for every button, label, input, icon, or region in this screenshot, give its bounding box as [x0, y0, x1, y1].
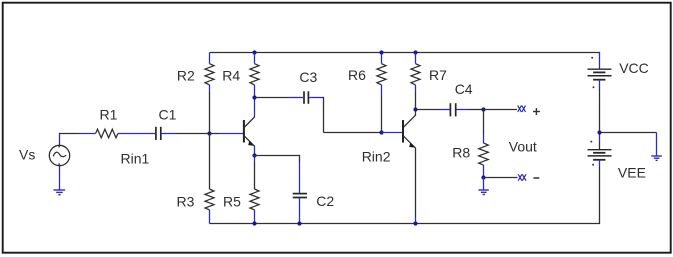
resistor R7: [411, 53, 420, 110]
node Q2 emitter at rail: [413, 221, 417, 225]
capacitor C1: [156, 127, 161, 140]
label plus sign: [533, 108, 540, 115]
capacitor C4: [450, 103, 455, 116]
terminal minus marker: [518, 174, 526, 180]
transistor Q2: [403, 110, 416, 224]
svg-text:R4: R4: [222, 67, 240, 83]
svg-text:Rin2: Rin2: [362, 149, 391, 165]
resistor R5: [250, 156, 259, 224]
svg-text:R7: R7: [429, 67, 447, 83]
svg-text:R5: R5: [223, 194, 241, 210]
label VCC: [619, 60, 649, 76]
svg-text:Vout: Vout: [509, 139, 537, 155]
label R7: [429, 67, 447, 83]
svg-text:Vs: Vs: [19, 146, 35, 162]
wire C3 to Q2 base node: [309, 97, 381, 133]
svg-text:VEE: VEE: [618, 165, 646, 181]
wire Q2 collector to C4: [416, 109, 450, 111]
svg-text:R3: R3: [177, 194, 195, 210]
wire VEE to bottom rail: [599, 160, 601, 224]
label R1: [100, 107, 118, 123]
node output plus: [481, 107, 485, 111]
node Q2 collector: [413, 107, 417, 111]
resistor R1: [96, 129, 118, 138]
wire C4 to output node: [456, 109, 483, 111]
label Rin1: [121, 151, 150, 167]
wire VCC to VEE: [599, 80, 601, 150]
label C3: [299, 69, 317, 85]
wire node to minus terminal: [484, 177, 518, 179]
svg-text:C4: C4: [455, 81, 473, 97]
node base of Q1: [207, 131, 211, 135]
wire C2 to bottom rail: [299, 198, 301, 223]
transistor Q1: [244, 98, 255, 156]
node R7 top: [413, 50, 417, 54]
ground (under Vs): [54, 190, 66, 195]
wire base node to Q2: [382, 132, 403, 134]
ground (supply midpoint): [651, 156, 662, 160]
wire bottom rail: [210, 223, 600, 225]
node R6 top: [379, 50, 383, 54]
battery VCC: [588, 52, 612, 88]
wire C1 to base node: [162, 133, 210, 135]
wire base node to Q1: [210, 133, 244, 135]
wire node to plus terminal: [484, 109, 518, 111]
label R3: [177, 194, 195, 210]
ground (under R8): [478, 178, 488, 195]
node Q1 emitter: [252, 153, 256, 157]
node Q1 collector: [252, 95, 256, 99]
svg-text:R8: R8: [452, 145, 470, 161]
label C1: [159, 107, 177, 123]
svg-text:C2: C2: [316, 193, 334, 209]
resistor R2: [205, 53, 214, 134]
source Vs: [49, 134, 95, 190]
wire top rail: [210, 52, 600, 54]
capacitor C2: [293, 194, 307, 198]
node Q2 base: [379, 130, 383, 134]
label R8: [452, 145, 470, 161]
svg-text:C3: C3: [299, 69, 317, 85]
node C2 bottom: [297, 221, 301, 225]
label Rin2: [362, 149, 391, 165]
label Vs: [19, 146, 35, 162]
terminal plus marker: [518, 106, 526, 112]
resistor R6: [377, 53, 386, 133]
node R8 bottom: [481, 175, 485, 179]
wire emitter node to C2: [255, 155, 300, 193]
label R2: [177, 67, 195, 83]
label R6: [348, 67, 366, 83]
label R5: [223, 194, 241, 210]
node R4 top: [252, 50, 256, 54]
svg-text:R6: R6: [348, 67, 366, 83]
svg-text:VCC: VCC: [619, 60, 649, 76]
node supply midpoint: [597, 130, 601, 134]
wire midpoint to ground: [600, 133, 657, 156]
label R4: [222, 67, 240, 83]
wire collector node to C3: [255, 97, 304, 99]
svg-text:C1: C1: [159, 107, 177, 123]
resistor R3: [205, 134, 214, 224]
label C2: [316, 193, 334, 209]
svg-text:R2: R2: [177, 67, 195, 83]
capacitor C3: [304, 91, 308, 104]
resistor R8: [479, 110, 489, 178]
label VEE: [618, 165, 646, 181]
wire R1 to C1: [118, 133, 155, 135]
node R5 bottom: [252, 221, 256, 225]
battery VEE: [588, 141, 612, 166]
label minus sign: [534, 177, 540, 179]
label C4: [455, 81, 473, 97]
label Vout: [509, 139, 537, 155]
svg-text:Rin1: Rin1: [121, 151, 150, 167]
svg-text:R1: R1: [100, 107, 118, 123]
resistor R4: [250, 53, 259, 98]
